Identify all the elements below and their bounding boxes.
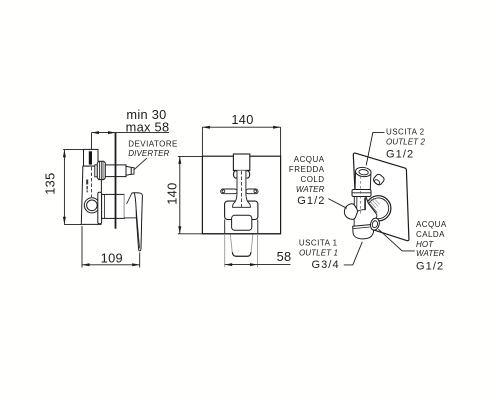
svg-text:G1/2: G1/2: [297, 195, 325, 207]
svg-text:140: 140: [231, 112, 253, 127]
svg-text:WATER: WATER: [416, 249, 445, 258]
svg-text:HOT: HOT: [416, 240, 434, 249]
svg-text:140: 140: [165, 182, 180, 204]
svg-text:G3/4: G3/4: [311, 259, 339, 271]
svg-text:G1/2: G1/2: [416, 261, 444, 273]
svg-text:OUTLET 2: OUTLET 2: [386, 138, 425, 147]
svg-text:USCITA 1: USCITA 1: [299, 239, 338, 248]
svg-text:max 58: max 58: [126, 119, 170, 134]
svg-text:G1/2: G1/2: [386, 149, 414, 161]
svg-text:USCITA 2: USCITA 2: [386, 128, 425, 137]
svg-text:ACQUA: ACQUA: [416, 220, 447, 229]
svg-text:WATER: WATER: [296, 185, 325, 194]
svg-text:COLD: COLD: [300, 175, 324, 184]
svg-text:FREDDA: FREDDA: [289, 165, 325, 174]
svg-text:CALDA: CALDA: [416, 230, 445, 239]
svg-text:DEVIATORE: DEVIATORE: [128, 139, 178, 148]
svg-text:58: 58: [277, 249, 292, 264]
svg-text:DIVERTER: DIVERTER: [128, 149, 169, 158]
svg-text:OUTLET 1: OUTLET 1: [299, 249, 338, 258]
svg-text:135: 135: [42, 172, 57, 194]
svg-text:ACQUA: ACQUA: [294, 155, 325, 164]
svg-text:109: 109: [101, 251, 123, 266]
